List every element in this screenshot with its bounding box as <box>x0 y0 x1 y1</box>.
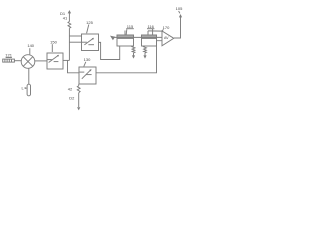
svg-text:115: 115 <box>127 24 134 29</box>
svg-text:150: 150 <box>50 39 57 44</box>
svg-text:D2: D2 <box>69 96 75 101</box>
svg-text:121: 121 <box>5 53 12 58</box>
svg-text:140: 140 <box>27 43 34 48</box>
svg-text:AV: AV <box>164 36 169 40</box>
svg-text:105: 105 <box>176 6 183 11</box>
svg-text:116: 116 <box>148 24 155 29</box>
svg-text:170: 170 <box>163 25 170 30</box>
svg-text:42: 42 <box>68 86 73 91</box>
svg-text:130: 130 <box>84 57 91 62</box>
svg-text:41: 41 <box>63 15 68 20</box>
svg-text:125: 125 <box>86 20 93 25</box>
